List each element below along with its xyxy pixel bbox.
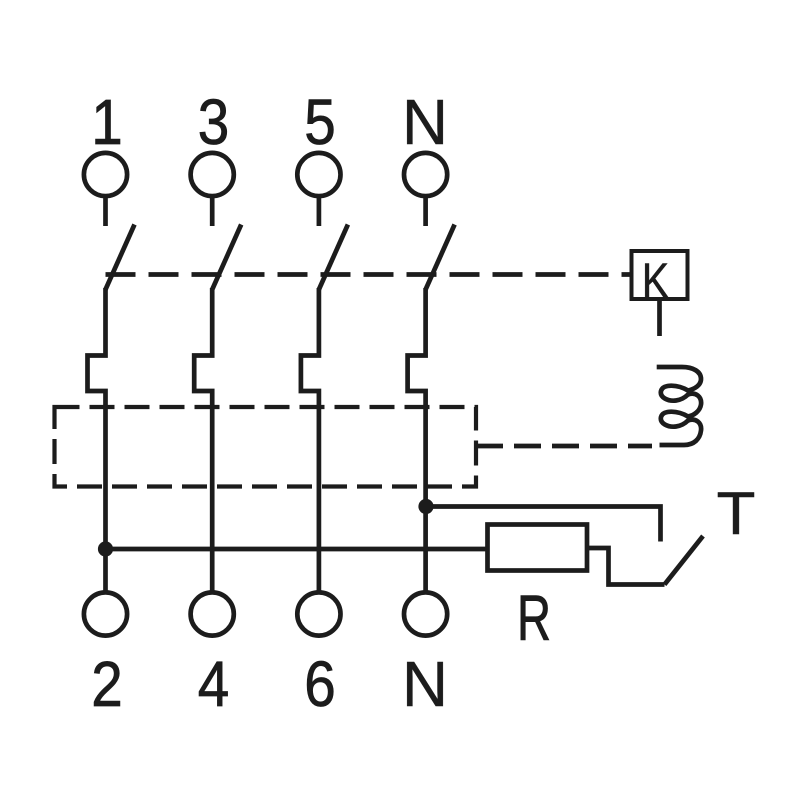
terminal N bottom circle — [404, 592, 447, 635]
terminal 4 circle — [191, 592, 234, 635]
wire K to coil — [657, 299, 662, 336]
relay K box — [632, 251, 688, 299]
junction dot on N pole — [418, 499, 433, 514]
switch blade pole 3 — [319, 225, 348, 290]
wire pole-1 junction to resistor — [106, 547, 488, 552]
svg-text:K: K — [642, 253, 670, 309]
current transformer core dashed rectangle — [55, 407, 477, 487]
svg-text:1: 1 — [91, 86, 123, 158]
wire terminal-5 stub — [317, 197, 322, 227]
switch blade pole 1 — [106, 225, 135, 290]
svg-text:R: R — [517, 582, 551, 654]
wire pole 3 with CT primary jog — [301, 288, 319, 593]
svg-text:T: T — [717, 480, 756, 547]
svg-text:5: 5 — [304, 86, 336, 158]
svg-text:N: N — [402, 86, 448, 158]
svg-text:2: 2 — [91, 648, 123, 720]
svg-text:3: 3 — [198, 86, 230, 158]
dashed wire CT secondary to coil — [476, 444, 652, 449]
terminal 2 circle — [84, 592, 127, 635]
switch blade pole N — [426, 225, 455, 290]
wire pole N with CT primary jog — [408, 288, 426, 593]
switch blade pole 2 — [212, 225, 241, 290]
svg-text:6: 6 — [304, 648, 336, 720]
wire terminal-3 stub — [210, 197, 215, 227]
terminal 6 circle — [297, 592, 340, 635]
svg-text:N: N — [402, 648, 448, 720]
mechanical linkage dashed line to relay K — [106, 272, 631, 277]
wire terminal-N stub — [423, 197, 428, 227]
resistor R box — [488, 525, 588, 571]
test switch blade — [665, 536, 704, 585]
wire terminal-1 stub — [103, 197, 108, 227]
terminal 3 — [191, 153, 234, 196]
wire pole 1 with CT primary jog — [88, 288, 106, 593]
trip coil of relay K — [657, 367, 701, 445]
wire pole 2 with CT primary jog — [194, 288, 212, 593]
wire resistor to test switch — [587, 548, 665, 585]
terminal 5 — [297, 153, 340, 196]
terminal 1 — [84, 153, 127, 196]
svg-text:4: 4 — [198, 648, 230, 720]
wire N junction to test contact — [426, 507, 661, 542]
terminal N top — [404, 153, 447, 196]
junction dot on pole 1 — [98, 541, 113, 556]
